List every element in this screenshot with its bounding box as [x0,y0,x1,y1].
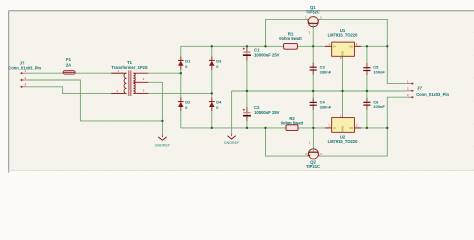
junction mid rail at C5/C6 [366,90,368,92]
svg-text:10000uF 25V: 10000uF 25V [254,110,280,115]
diode D2 [178,98,191,111]
svg-text:10000uF 25V: 10000uF 25V [254,52,280,57]
connector J? input Conn_01x03_Pin [8,60,41,88]
wire J1 pin2 to earth ground [27,80,163,121]
resistor R2 0ohm 5watt [281,116,304,131]
svg-text:100nF: 100nF [373,104,385,109]
svg-text:100nF: 100nF [373,69,385,74]
wire T1 secondary top to D1/D2 node [148,72,181,74]
svg-text:TIP31C: TIP31C [306,164,320,169]
wire fuse F1 to T1 primary pin1 [75,72,124,74]
wire C5/C6 column [366,46,368,128]
junction mid rail at C3/C4 [312,90,314,92]
svg-text:330nF: 330nF [320,69,332,74]
wire bridge column D3-D4 [211,46,213,128]
svg-text:D4: D4 [216,100,222,105]
junction top rail at output branch [386,45,388,47]
wire T1 secondary bottom to D3/D4 node [148,92,212,94]
wire C3/C4 column [312,46,314,128]
wire U2 GND pin to 0V rail [342,91,344,118]
capacitor C5 100nF [363,63,385,75]
wire bottom -rail (U2 VO to output branch) [354,127,387,129]
wire Q1 collector branch [319,19,387,46]
wire bottom -rail [181,127,286,129]
wire C1/C2 filter column [246,46,248,128]
junction D1 anode / secondary top [180,72,182,74]
junction bottom rail at Q2 base / C4 [312,127,314,129]
svg-text:Conn_01x03_Pin: Conn_01x03_Pin [416,92,449,97]
wire U1 GND pin to 0V rail [342,56,344,91]
connector J? output Conn_01x03_Pin [407,79,450,98]
junction mid rail at C1/C2 [246,90,248,92]
junction bottom rail at output branch [386,127,388,129]
ground GNDREF [224,134,240,144]
junction earth wire at center-tap drop [161,120,163,122]
svg-text:0ohm 5watt: 0ohm 5watt [279,36,302,41]
svg-text:330nF: 330nF [320,104,332,109]
svg-text:VI: VI [333,126,336,130]
svg-text:F1: F1 [66,57,72,62]
wire J1 pin3 to T1 primary pin2 [27,87,125,94]
svg-text:2A: 2A [66,63,71,68]
svg-text:VO: VO [349,126,354,130]
wire +15V rail to output pin1 [387,46,407,83]
junction top rail at Q1 base / C3 [312,45,314,47]
svg-text:D1: D1 [185,58,191,63]
svg-text:Conn_01x03_Pin: Conn_01x03_Pin [8,66,41,71]
junction bottom rail at C6 [366,127,368,129]
transistor Q2 TIP31C [305,141,322,169]
transformer T1 Transformer_1P2S [111,60,148,96]
svg-text:VI: VI [333,45,336,49]
svg-text:Transformer_1P2S: Transformer_1P2S [111,65,147,70]
capacitor C6 100nF [363,98,385,110]
capacitor C2 10000uF 25V [243,105,280,121]
svg-text:LM7915_TO220: LM7915_TO220 [328,139,358,144]
svg-text:VO: VO [349,45,354,49]
wire top +rail [181,45,284,47]
junction bottom rail at Q2 emitter branch [264,127,266,129]
diode D3 [209,56,222,69]
transistor Q1 TIP32C [305,5,322,34]
junction bottom rail at C2 [246,127,248,129]
regulator U1 LM7815_TO220 [325,28,361,60]
junction top rail at C5 [366,45,368,47]
capacitor C4 330nF [310,98,332,110]
capacitor C1 10000uF 25V [243,47,280,61]
wire top +rail (U1 VO to output branch) [354,45,387,47]
svg-text:0ohm 5watt: 0ohm 5watt [281,121,304,126]
diode D4 [209,98,222,111]
svg-text:D2: D2 [185,100,191,105]
svg-text:GNDREF: GNDREF [224,141,240,145]
svg-text:J?: J? [417,86,422,91]
ground GNDREF [155,136,171,148]
resistor R1 0ohm 5watt [279,31,302,49]
wire bridge column D1-D2 [180,46,182,128]
svg-text:GND: GND [341,126,345,132]
wire 0V mid rail to output pin2 [232,90,407,92]
regulator U2 LM7915_TO220 [325,113,361,144]
svg-text:LM7815_TO220: LM7815_TO220 [328,33,358,38]
junction top rail at C1 [246,45,248,47]
wire bottom -rail (R2 to U2 VI) [298,127,332,129]
wire J1 pin1 to fuse F1 [27,72,63,74]
wire Q1 base to +rail [312,25,314,47]
capacitor C3 330nF [310,63,332,75]
junction D3 anode / secondary bottom [211,92,213,94]
wire 0V rail to GNDREF 2 [231,91,233,135]
svg-text:TIP32C: TIP32C [306,10,320,15]
wire -15V rail to output pin3 [387,97,407,128]
junction top rail at Q1 emitter branch [264,45,266,47]
fuse F1 2A [63,57,75,74]
wire Q2 base to -rail [312,128,314,151]
junction mid rail at U1/U2 GND [341,90,343,92]
wire Q2 emitter branch [266,128,308,156]
svg-text:D3: D3 [216,58,222,63]
diode D1 [178,56,191,69]
wire top +rail (R1 to U1 VI) [297,45,331,47]
wire T1 center tap to GNDREF [148,82,162,136]
wire Q2 collector branch [319,128,387,156]
wire Q1 emitter branch [266,19,308,46]
svg-text:GNDREF: GNDREF [155,144,171,148]
svg-text:J?: J? [20,60,25,65]
junction bottom rail at D4 [211,127,213,129]
junction top rail at D3 [211,45,213,47]
